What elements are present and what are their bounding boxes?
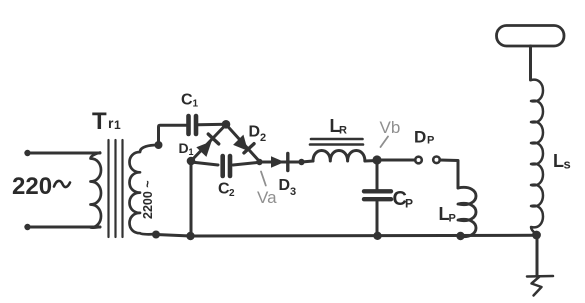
label DP <box>414 128 434 147</box>
transformer Tr1 core <box>109 140 123 237</box>
node LP bottom <box>456 232 464 240</box>
wire spark gap to LP <box>440 160 458 188</box>
svg-text:2: 2 <box>229 188 235 199</box>
svg-text:220: 220 <box>12 173 52 200</box>
topload <box>497 26 565 47</box>
wire mains bottom <box>28 226 101 229</box>
svg-text:P: P <box>405 197 413 211</box>
svg-text:Va: Va <box>257 188 277 207</box>
svg-text:1: 1 <box>114 118 121 132</box>
wire C2 to node <box>233 162 260 165</box>
terminal node bottom-left <box>24 224 30 230</box>
label D2 <box>249 124 267 145</box>
svg-text:D: D <box>179 140 189 156</box>
ground <box>527 276 553 296</box>
label D3 <box>279 177 297 198</box>
label D1 <box>179 140 194 157</box>
svg-text:1: 1 <box>193 99 199 110</box>
diode D3 <box>260 154 300 171</box>
wire node to CP <box>376 160 379 191</box>
label Vb <box>380 118 401 137</box>
wire junction down to bottom rail <box>190 161 193 236</box>
node D1 anode junction <box>187 157 196 166</box>
svg-text:D: D <box>249 124 261 141</box>
label Va <box>257 188 277 207</box>
svg-text:s: s <box>564 157 571 172</box>
label C2 <box>218 181 235 200</box>
svg-text:L: L <box>553 151 564 171</box>
spark gap DP electrode left <box>415 157 422 164</box>
label LR <box>330 116 348 137</box>
wire topload stem <box>529 46 532 80</box>
wire to ground <box>536 235 539 276</box>
node CP bottom <box>373 232 381 240</box>
diode D2 <box>226 125 260 163</box>
capacitor C1 <box>189 116 197 134</box>
label Tr1 <box>92 108 121 135</box>
svg-text:3: 3 <box>290 186 296 198</box>
spark gap DP electrode right <box>433 157 440 164</box>
svg-text:P: P <box>427 135 434 147</box>
label LS <box>553 151 571 172</box>
wire to C1 <box>159 125 187 145</box>
leader line Vb <box>381 137 389 148</box>
label CP <box>393 188 414 211</box>
svg-text:D: D <box>279 177 291 194</box>
node D2/C2/D3 junction <box>256 159 262 165</box>
node LS bottom / ground junction <box>532 231 541 240</box>
node secondary bottom <box>152 231 160 239</box>
node C1/D1/D2 junction <box>222 120 231 129</box>
capacitor C2 <box>223 156 230 176</box>
svg-text:D: D <box>414 128 426 147</box>
transformer Tr1 primary winding <box>91 153 102 228</box>
svg-text:P: P <box>449 213 456 225</box>
inductor LS <box>531 80 543 234</box>
label 2200~ <box>141 180 155 219</box>
wire bottom rail <box>156 235 537 237</box>
label 220~ <box>12 173 52 200</box>
leader line Va <box>261 172 266 186</box>
node bottom rail / D1 branch <box>186 232 194 240</box>
label LP <box>439 204 456 225</box>
svg-text:T: T <box>92 108 107 135</box>
transformer Tr1 secondary winding <box>130 145 158 234</box>
inductor LR core lines <box>310 139 363 145</box>
diode D1 <box>191 125 226 162</box>
svg-text:R: R <box>339 125 347 137</box>
svg-text:C: C <box>181 92 193 109</box>
label C1 <box>181 92 199 110</box>
wire C1 to node <box>199 123 227 127</box>
inductor LR <box>302 151 378 163</box>
wire node to C2 <box>191 162 218 165</box>
wire mains top <box>28 152 101 155</box>
svg-text:1: 1 <box>189 147 194 157</box>
node D3 cathode <box>298 159 304 165</box>
node secondary top <box>155 141 163 149</box>
terminal node top-left <box>24 150 30 156</box>
wire node to spark gap <box>377 159 415 162</box>
inductor LP <box>458 187 476 236</box>
node Vb junction <box>372 155 381 164</box>
wire CP to bottom rail <box>376 202 379 237</box>
svg-text:2200 ~: 2200 ~ <box>141 180 155 219</box>
svg-text:Vb: Vb <box>380 118 401 137</box>
capacitor CP <box>364 191 391 199</box>
svg-text:2: 2 <box>260 132 266 144</box>
